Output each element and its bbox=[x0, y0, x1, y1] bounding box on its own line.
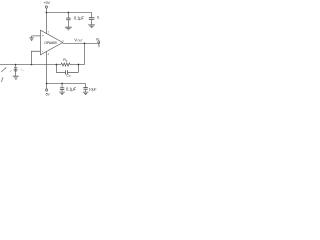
svg-text:0.1µF: 0.1µF bbox=[66, 87, 77, 92]
svg-text:0.1µF: 0.1µF bbox=[74, 16, 85, 21]
svg-text:L: L bbox=[99, 39, 100, 42]
svg-text:OPA659: OPA659 bbox=[44, 41, 56, 45]
svg-text:+: + bbox=[42, 34, 44, 38]
svg-text:+5V: +5V bbox=[43, 1, 50, 5]
svg-text:10µF: 10µF bbox=[89, 87, 97, 91]
svg-text:OUT: OUT bbox=[78, 40, 84, 43]
svg-text:6.8: 6.8 bbox=[97, 16, 100, 20]
